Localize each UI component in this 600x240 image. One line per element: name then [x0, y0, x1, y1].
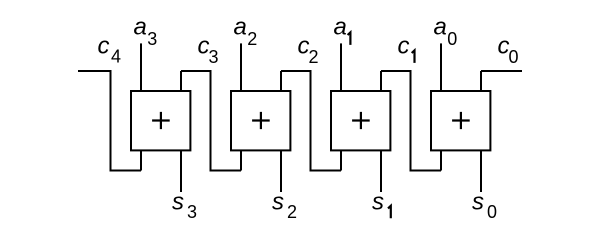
label c0	[498, 33, 519, 68]
svg-text:2: 2	[287, 202, 297, 222]
svg-text:a: a	[234, 13, 247, 40]
svg-text:3: 3	[147, 29, 157, 49]
svg-text:s: s	[172, 188, 184, 215]
svg-text:2: 2	[309, 47, 319, 67]
svg-text:0: 0	[447, 29, 457, 49]
wire c1 net	[381, 71, 441, 171]
wire c1 carry-in stub U1	[380, 71, 382, 91]
plus sign U2	[252, 112, 270, 129]
wire a2 input stub	[240, 43, 242, 91]
label a2	[234, 13, 258, 49]
label a1	[334, 13, 351, 45]
svg-text:a: a	[334, 13, 347, 40]
svg-text:4: 4	[111, 47, 121, 67]
wire c2 net	[281, 71, 341, 171]
svg-text:s: s	[372, 188, 384, 215]
svg-text:2: 2	[247, 29, 257, 49]
label s3	[172, 188, 197, 221]
adder box U1	[331, 91, 390, 150]
label c4	[98, 33, 122, 67]
wire s3 output stub	[180, 151, 182, 193]
plus sign U1	[352, 112, 370, 129]
wire c4 carry-out stub U3	[140, 151, 142, 171]
svg-text:c: c	[398, 33, 410, 60]
label s0	[472, 188, 497, 221]
adder box U2	[231, 91, 290, 150]
svg-text:0: 0	[487, 202, 497, 222]
wire c3 carry-in stub U3	[180, 71, 182, 91]
svg-text:3: 3	[209, 47, 219, 67]
wire c1 carry-out stub U0	[440, 151, 442, 171]
label c3	[198, 33, 219, 68]
wire s0 output stub	[480, 151, 482, 193]
label a0	[434, 13, 458, 49]
wire s2 output stub	[280, 151, 282, 193]
svg-text:c: c	[98, 33, 110, 60]
wire c2 carry-out stub U1	[340, 151, 342, 171]
wire a1 input stub	[340, 43, 342, 91]
label c1	[398, 33, 415, 63]
plus sign U3	[152, 112, 170, 129]
label a3	[134, 13, 158, 49]
label s1	[372, 188, 391, 218]
adder box U3	[131, 91, 190, 150]
wire c4 net	[78, 71, 141, 171]
svg-text:0: 0	[509, 47, 519, 67]
wire c3 carry-out stub U2	[240, 151, 242, 171]
wire c0 net	[481, 70, 522, 72]
plus sign U0	[452, 112, 470, 129]
svg-text:s: s	[272, 188, 284, 215]
wire c3 net	[181, 71, 241, 171]
label s2	[272, 188, 297, 221]
svg-text:a: a	[134, 13, 147, 40]
wire c2 carry-in stub U2	[280, 71, 282, 91]
wire a0 input stub	[440, 43, 442, 91]
svg-text:a: a	[434, 13, 447, 40]
wire c0 carry-in stub U0	[480, 71, 482, 91]
label c2	[298, 33, 319, 68]
wire a3 input stub	[140, 43, 142, 91]
svg-text:s: s	[472, 188, 484, 215]
adder box U0	[431, 91, 490, 150]
svg-text:3: 3	[187, 202, 197, 222]
wire s1 output stub	[380, 151, 382, 193]
